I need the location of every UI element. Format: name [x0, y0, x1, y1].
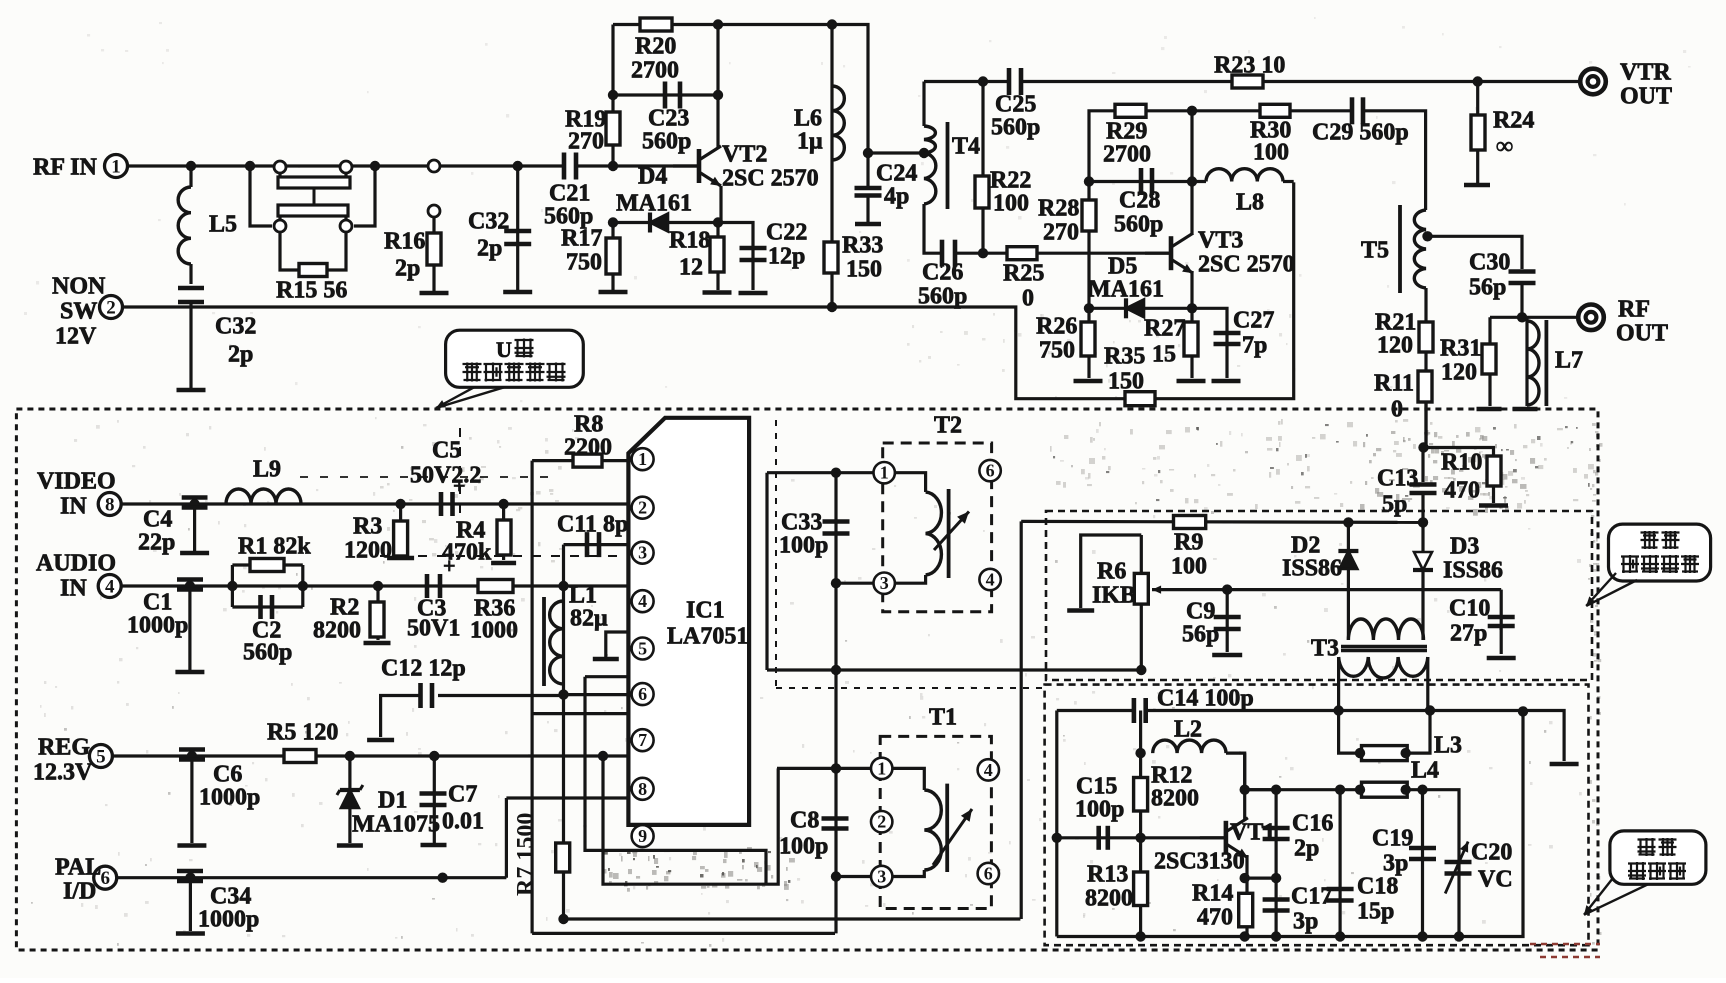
- svg-text:2p: 2p: [1294, 836, 1319, 862]
- svg-text:MA1075: MA1075: [352, 812, 440, 838]
- svg-text:D4: D4: [638, 164, 667, 190]
- svg-text:VT2: VT2: [722, 142, 767, 168]
- svg-text:12p: 12p: [768, 244, 805, 270]
- svg-text:0: 0: [1022, 286, 1034, 312]
- svg-text:8200: 8200: [313, 618, 361, 644]
- svg-text:C17: C17: [1291, 884, 1332, 910]
- svg-text:120: 120: [1377, 333, 1413, 359]
- svg-text:IN: IN: [60, 494, 87, 520]
- svg-text:U: U: [496, 337, 512, 362]
- svg-text:8200: 8200: [1085, 886, 1133, 912]
- svg-text:C8: C8: [790, 808, 819, 834]
- svg-text:R17: R17: [561, 226, 602, 252]
- svg-text:100: 100: [1171, 554, 1207, 580]
- svg-text:100: 100: [993, 191, 1029, 217]
- svg-text:1200: 1200: [344, 538, 392, 564]
- svg-text:C32: C32: [215, 314, 256, 340]
- svg-text:8: 8: [105, 495, 115, 516]
- svg-text:560p: 560p: [1114, 212, 1163, 238]
- svg-text:VTR: VTR: [1620, 60, 1671, 86]
- svg-text:PAL: PAL: [55, 855, 101, 881]
- svg-text:1000p: 1000p: [199, 785, 260, 811]
- svg-text:560p: 560p: [642, 129, 691, 155]
- svg-text:R9: R9: [1174, 530, 1203, 556]
- svg-text:C26: C26: [922, 260, 963, 286]
- svg-text:C16: C16: [1292, 811, 1333, 837]
- svg-text:2SC 2570: 2SC 2570: [722, 166, 819, 192]
- svg-text:T2: T2: [934, 413, 962, 439]
- svg-text:R28: R28: [1038, 196, 1079, 222]
- svg-text:D1: D1: [378, 788, 407, 814]
- svg-text:1: 1: [877, 758, 886, 778]
- svg-text:12.3V: 12.3V: [33, 760, 93, 786]
- svg-text:3: 3: [638, 543, 647, 563]
- svg-text:150: 150: [846, 257, 882, 283]
- svg-text:R3: R3: [353, 514, 382, 540]
- svg-text:270: 270: [568, 129, 604, 155]
- svg-text:C20: C20: [1471, 840, 1512, 866]
- svg-text:2p: 2p: [228, 342, 253, 368]
- svg-text:6: 6: [986, 461, 995, 481]
- svg-text:1: 1: [111, 157, 121, 178]
- svg-text:C27: C27: [1233, 308, 1274, 334]
- svg-text:C14 100p: C14 100p: [1157, 686, 1254, 712]
- svg-text:+: +: [443, 553, 456, 578]
- svg-text:2SC 2570: 2SC 2570: [1198, 252, 1295, 278]
- svg-text:R25: R25: [1003, 261, 1044, 287]
- svg-text:15: 15: [1152, 342, 1176, 368]
- svg-text:OUT: OUT: [1620, 84, 1672, 110]
- svg-text:2p: 2p: [395, 256, 420, 282]
- svg-text:8200: 8200: [1151, 786, 1199, 812]
- svg-text:L7: L7: [1555, 348, 1583, 374]
- svg-text:R18: R18: [669, 228, 710, 254]
- svg-text:AUDIO: AUDIO: [36, 551, 116, 577]
- svg-text:6: 6: [984, 864, 993, 884]
- svg-text:R24: R24: [1493, 108, 1534, 134]
- svg-text:27p: 27p: [1450, 621, 1487, 647]
- svg-text:T5: T5: [1361, 238, 1389, 264]
- svg-text:3: 3: [880, 573, 889, 593]
- svg-text:100: 100: [1253, 140, 1289, 166]
- svg-text:12: 12: [679, 255, 703, 281]
- svg-text:C30: C30: [1469, 250, 1510, 276]
- svg-text:R23 10: R23 10: [1214, 53, 1285, 79]
- svg-text:3p: 3p: [1383, 851, 1408, 877]
- svg-text:2700: 2700: [631, 58, 679, 84]
- svg-text:5p: 5p: [1382, 492, 1407, 518]
- svg-text:C5: C5: [432, 438, 461, 464]
- svg-text:2SC3130: 2SC3130: [1154, 849, 1245, 875]
- svg-text:SW: SW: [60, 299, 97, 325]
- svg-text:0.01: 0.01: [442, 809, 484, 835]
- svg-text:R20: R20: [635, 34, 676, 60]
- svg-text:R7 1500: R7 1500: [513, 813, 539, 896]
- svg-text:R35: R35: [1104, 344, 1145, 370]
- svg-text:VC: VC: [1478, 867, 1513, 893]
- svg-text:3p: 3p: [1293, 909, 1318, 935]
- svg-text:MA161: MA161: [616, 191, 692, 217]
- svg-text:56p: 56p: [1182, 622, 1219, 648]
- svg-text:R33: R33: [842, 233, 883, 259]
- svg-text:4p: 4p: [884, 184, 909, 210]
- svg-text:7p: 7p: [1242, 333, 1267, 359]
- svg-text:4: 4: [638, 591, 647, 611]
- svg-text:C19: C19: [1372, 826, 1413, 852]
- svg-text:R16: R16: [384, 229, 425, 255]
- svg-text:C29 560p: C29 560p: [1312, 120, 1409, 146]
- svg-text:VT3: VT3: [1198, 228, 1243, 254]
- svg-text:8: 8: [638, 779, 647, 799]
- svg-text:R13: R13: [1087, 862, 1128, 888]
- svg-text:3: 3: [877, 867, 886, 887]
- svg-text:12V: 12V: [55, 324, 97, 350]
- svg-text:750: 750: [1039, 338, 1075, 364]
- svg-text:C10: C10: [1449, 596, 1490, 622]
- svg-text:4: 4: [105, 577, 115, 598]
- svg-text:RF IN: RF IN: [33, 155, 97, 181]
- svg-text:R26: R26: [1036, 314, 1077, 340]
- svg-text:C13: C13: [1377, 466, 1418, 492]
- svg-text:R27: R27: [1144, 316, 1185, 342]
- svg-text:5: 5: [638, 639, 647, 659]
- svg-text:470: 470: [1444, 478, 1480, 504]
- svg-text:L2: L2: [1174, 717, 1202, 743]
- svg-text:ISS86: ISS86: [1282, 556, 1342, 582]
- svg-text:6: 6: [638, 684, 647, 704]
- svg-text:50V2.2: 50V2.2: [410, 463, 481, 489]
- svg-text:560p: 560p: [918, 284, 967, 310]
- svg-text:5: 5: [96, 747, 106, 768]
- svg-text:L4: L4: [1411, 758, 1439, 784]
- svg-text:C32: C32: [468, 209, 509, 235]
- svg-text:R1 82k: R1 82k: [238, 534, 311, 560]
- svg-text:NON: NON: [52, 274, 106, 300]
- svg-text:9: 9: [638, 826, 647, 846]
- svg-text:56p: 56p: [1469, 275, 1506, 301]
- svg-text:100p: 100p: [779, 533, 828, 559]
- svg-text:1μ: 1μ: [797, 129, 823, 155]
- svg-text:1000p: 1000p: [198, 907, 259, 933]
- svg-text:R11: R11: [1374, 371, 1414, 397]
- svg-text:2: 2: [106, 298, 116, 319]
- svg-text:560p: 560p: [991, 115, 1040, 141]
- svg-text:ISS86: ISS86: [1443, 558, 1503, 584]
- svg-text:2: 2: [877, 812, 886, 832]
- svg-text:22p: 22p: [138, 530, 175, 556]
- svg-text:1000: 1000: [470, 618, 518, 644]
- svg-text:C12 12p: C12 12p: [381, 656, 466, 682]
- svg-text:1: 1: [880, 463, 889, 483]
- svg-text:6: 6: [100, 868, 110, 889]
- svg-text:L9: L9: [253, 457, 281, 483]
- svg-text:270: 270: [1043, 220, 1079, 246]
- svg-text:2200: 2200: [564, 435, 612, 461]
- svg-text:C22: C22: [766, 220, 807, 246]
- svg-text:100p: 100p: [1075, 797, 1124, 823]
- svg-text:I/D: I/D: [63, 879, 96, 905]
- svg-text:R15 56: R15 56: [276, 278, 347, 304]
- svg-text:120: 120: [1441, 360, 1477, 386]
- svg-text:82μ: 82μ: [570, 606, 608, 632]
- svg-text:2700: 2700: [1103, 142, 1151, 168]
- svg-text:1000p: 1000p: [127, 613, 188, 639]
- svg-text:C18: C18: [1357, 874, 1398, 900]
- svg-text:0: 0: [1391, 397, 1403, 423]
- svg-text:7: 7: [638, 730, 647, 750]
- svg-text:L8: L8: [1236, 190, 1264, 216]
- svg-text:OUT: OUT: [1616, 321, 1668, 347]
- svg-text:T4: T4: [952, 134, 980, 160]
- svg-text:L5: L5: [209, 212, 237, 238]
- svg-text:L3: L3: [1434, 733, 1462, 759]
- svg-text:RF: RF: [1618, 297, 1650, 323]
- svg-text:IC1: IC1: [686, 598, 725, 624]
- svg-text:4: 4: [984, 760, 993, 780]
- svg-text:LA7051: LA7051: [667, 624, 748, 650]
- svg-text:IKB: IKB: [1092, 583, 1136, 609]
- svg-text:15p: 15p: [1357, 899, 1394, 925]
- svg-text:C28: C28: [1119, 188, 1160, 214]
- svg-text:2: 2: [638, 498, 647, 518]
- svg-text:R31: R31: [1440, 336, 1481, 362]
- svg-text:C7: C7: [448, 782, 477, 808]
- svg-text:R5 120: R5 120: [267, 720, 338, 746]
- svg-text:R14: R14: [1192, 881, 1233, 907]
- svg-text:2p: 2p: [477, 236, 502, 262]
- svg-text:750: 750: [566, 250, 602, 276]
- svg-text:VT1: VT1: [1230, 820, 1275, 846]
- svg-text:∞: ∞: [1496, 134, 1513, 160]
- svg-text:IN: IN: [60, 576, 87, 602]
- svg-text:REG: REG: [38, 735, 90, 761]
- svg-text:C11 8p: C11 8p: [557, 512, 628, 538]
- svg-text:VIDEO: VIDEO: [37, 469, 116, 495]
- svg-text:1: 1: [638, 449, 647, 469]
- svg-text:R6: R6: [1097, 559, 1126, 585]
- svg-text:D3: D3: [1450, 534, 1479, 560]
- svg-text:470: 470: [1197, 905, 1233, 931]
- svg-text:T1: T1: [929, 705, 957, 731]
- svg-text:4: 4: [986, 570, 995, 590]
- svg-text:T3: T3: [1311, 636, 1339, 662]
- svg-text:100p: 100p: [779, 834, 828, 860]
- svg-text:560p: 560p: [243, 640, 292, 666]
- svg-text:R10: R10: [1441, 450, 1482, 476]
- svg-text:50V1: 50V1: [407, 616, 460, 642]
